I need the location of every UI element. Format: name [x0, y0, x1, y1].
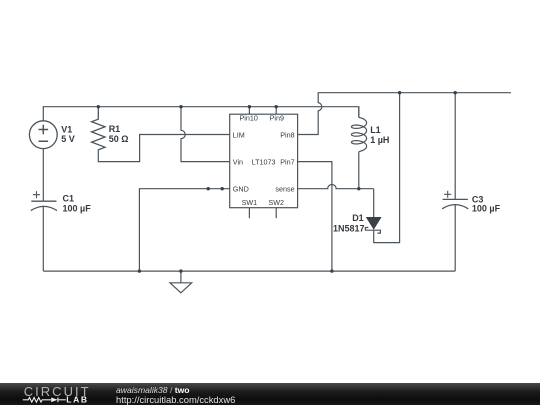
wire: Pin7 riser down to bottom rail: [298, 162, 332, 272]
wire: Pin8 to upper rail with hop over top rail: [298, 93, 511, 135]
svg-text:L1: L1: [370, 125, 381, 135]
ground symbol stub: [180, 271, 182, 283]
svg-text:SW1: SW1: [242, 198, 258, 207]
wire: C3 lower lead: [454, 205, 456, 271]
footer bar: [0, 383, 540, 405]
pin stub SW1: [248, 208, 250, 219]
svg-text:C1: C1: [63, 193, 75, 203]
svg-text:V1: V1: [61, 124, 72, 134]
inductor L1 bottom lead: [358, 152, 360, 189]
node dot: Pin9 on rail: [275, 105, 278, 108]
node dot: Pin7 riser on bottom rail: [330, 269, 333, 272]
pin stub SW2: [275, 208, 277, 219]
diode D1 anode lead: [373, 189, 375, 217]
node dot: GND wire joint 2: [221, 187, 224, 190]
wire: sense wire with hop over Pin7 riser: [298, 185, 374, 189]
capacitor C3 polarity plus: [444, 191, 451, 198]
wire: C3 riser from upper rail: [454, 93, 456, 200]
wire: GND pin to ground riser: [139, 189, 229, 271]
capacitor C1 curved plate: [31, 206, 57, 210]
resistor R1: [92, 107, 105, 150]
node dot: Vin riser on rail: [179, 105, 182, 108]
svg-text:D1: D1: [352, 213, 364, 223]
diode D1 triangle: [366, 217, 382, 230]
svg-text:LT1073: LT1073: [252, 157, 276, 166]
wire: top rail from V1 plus terminal to L1 top: [43, 107, 359, 121]
svg-text:sense: sense: [275, 185, 294, 194]
pin stub Pin9: [275, 107, 277, 115]
inductor L1 coil: [351, 107, 366, 152]
svg-text:Pin10: Pin10: [240, 114, 258, 123]
svg-text:Vin: Vin: [233, 157, 243, 166]
ground symbol triangle: [170, 283, 192, 293]
op-amp/IC U1 LT1073 body: [230, 114, 298, 208]
svg-text:SW2: SW2: [268, 198, 284, 207]
svg-text:GND: GND: [233, 185, 249, 194]
wire: R1 bottom to LIM pin: [98, 135, 229, 162]
svg-text:LIM: LIM: [233, 130, 245, 139]
svg-text:100 µF: 100 µF: [472, 203, 501, 213]
capacitor C1 top plate: [31, 200, 56, 202]
svg-text:100 µF: 100 µF: [63, 204, 92, 214]
svg-text:50 Ω: 50 Ω: [109, 134, 129, 144]
wire: C1 lower lead: [42, 206, 44, 271]
node dot: R1 top on rail: [97, 105, 100, 108]
svg-text:LAB: LAB: [66, 395, 88, 405]
node dot: diode riser on upper rail: [398, 91, 401, 94]
pin stub Pin10: [248, 107, 250, 115]
wire: V1 to C1 lead: [42, 149, 44, 202]
svg-text:R1: R1: [109, 124, 121, 134]
capacitor C3 curved plate: [442, 205, 468, 209]
CircuitLab logo: [0, 383, 110, 405]
node dot: GND riser on bottom rail: [138, 269, 141, 272]
node dot: ground symbol on bottom rail: [179, 269, 182, 272]
node dot: Pin10 on rail: [248, 105, 251, 108]
wire: Vin riser from top rail with hop over LIM wire: [181, 107, 230, 162]
wire: bottom rail: [43, 270, 455, 272]
voltage source V1: [29, 121, 57, 149]
svg-text:Pin8: Pin8: [280, 130, 294, 139]
svg-text:Pin9: Pin9: [270, 114, 284, 123]
node dot: L1 bottom on sense wire: [357, 187, 360, 190]
node dot: GND wire joint 1: [207, 187, 210, 190]
diode D1 schottky cathode bar: [365, 228, 380, 234]
capacitor C3 top plate: [443, 198, 468, 200]
node dot: C3 riser on upper rail: [454, 91, 457, 94]
capacitor C1 polarity plus: [33, 191, 40, 198]
svg-text:Pin7: Pin7: [280, 157, 294, 166]
wire: diode cathode return riser to upper rail: [374, 93, 400, 243]
svg-text:1 µH: 1 µH: [370, 135, 389, 145]
svg-text:1N5817: 1N5817: [333, 224, 365, 234]
svg-text:5 V: 5 V: [61, 134, 75, 144]
